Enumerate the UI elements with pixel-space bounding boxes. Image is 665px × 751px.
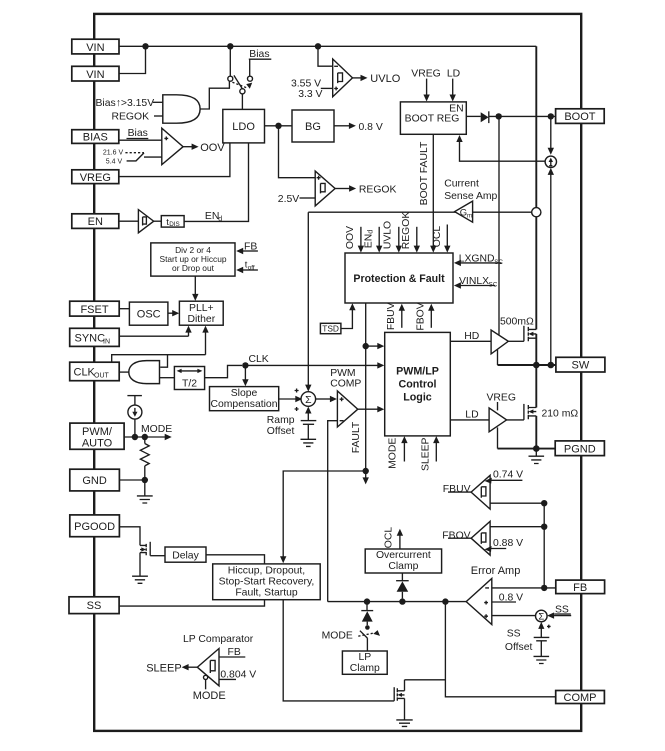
- svg-text:Sense Amp: Sense Amp: [444, 191, 497, 202]
- diode D1 boot: [481, 111, 489, 123]
- svg-text:Slope: Slope: [231, 388, 258, 399]
- wire HD driver return to SW: [497, 350, 499, 365]
- switch S2 MODE LP clamp: [358, 625, 380, 651]
- svg-text:SS: SS: [507, 628, 521, 639]
- svg-text:T/2: T/2: [182, 378, 197, 389]
- wire slope comp to summer: [279, 389, 303, 412]
- delay block Delay: [165, 547, 206, 562]
- label FBUV arrow protection to logic: [386, 302, 405, 330]
- transistor Q2 high-side FET: [508, 326, 536, 342]
- label SS input to summer: [547, 604, 571, 628]
- label 0.8 V BG output: [334, 122, 383, 133]
- svg-text:SS: SS: [87, 600, 102, 612]
- svg-text:OOV: OOV: [200, 142, 225, 154]
- svg-text:OCL: OCL: [383, 527, 394, 549]
- svg-text:or Drop out: or Drop out: [172, 263, 215, 273]
- label OOV arrow into protection: [345, 226, 364, 253]
- wire T/2 output to CLK node: [205, 365, 243, 377]
- svg-text:BIAS: BIAS: [83, 132, 108, 144]
- svg-text:d: d: [218, 216, 222, 223]
- pin VREG: [72, 170, 119, 184]
- wire VIN2 to rail: [119, 46, 146, 73]
- node FB junction error amp: [541, 585, 547, 591]
- svg-text:COMP: COMP: [330, 378, 361, 389]
- svg-text:Ramp: Ramp: [267, 415, 295, 426]
- and-gate U1 bias-ok: [163, 95, 200, 123]
- wire VREG pin to LDO: [119, 143, 230, 177]
- svg-text:MODE: MODE: [322, 631, 353, 642]
- wire VIN power path down to current sense: [535, 46, 537, 207]
- svg-text:AUTO: AUTO: [82, 438, 113, 450]
- svg-text:Clamp: Clamp: [350, 663, 380, 674]
- label FB input to divider: [236, 241, 258, 254]
- svg-text:210 mΩ: 210 mΩ: [542, 408, 579, 419]
- svg-text:SW: SW: [572, 360, 590, 372]
- wire boot supply drop to HD driver: [498, 116, 500, 334]
- capacitor C2 SS offset: [534, 622, 550, 641]
- delay block tDIS: [161, 216, 184, 228]
- svg-text:VREG: VREG: [80, 172, 111, 184]
- state block Hiccup Dropout Startup: [213, 564, 321, 600]
- svg-text:TSD: TSD: [322, 324, 339, 334]
- wire delay to hiccup block: [206, 555, 265, 564]
- node boot junction at diode: [496, 113, 502, 119]
- oscillator OSC: [129, 302, 168, 325]
- regulator LDO: [223, 109, 265, 142]
- label VREG driver supply: [487, 393, 516, 411]
- label REGOK input: [112, 112, 163, 123]
- net FAULT vertical: [351, 303, 366, 471]
- svg-text:FB: FB: [228, 647, 241, 658]
- bandgap BG: [292, 110, 334, 142]
- net FB vertical: [543, 503, 545, 588]
- pin EN: [72, 214, 119, 229]
- svg-text:Hiccup, Dropout,: Hiccup, Dropout,: [228, 565, 305, 576]
- wire OSC to PLL: [168, 310, 179, 316]
- comparator OOV: [162, 128, 183, 164]
- wire SLEEP output: [146, 662, 197, 674]
- wire summer to error amp input: [492, 615, 536, 617]
- label 0.74 V reference: [485, 470, 524, 484]
- diode D2 overcurrent clamp: [396, 573, 409, 598]
- wire VIN rail: [119, 45, 536, 47]
- switch S1 VIN/Bias select: [228, 75, 253, 94]
- svg-text:EN: EN: [205, 211, 219, 222]
- svg-text:LP: LP: [358, 652, 371, 663]
- wire schmitt to tDIS: [154, 220, 162, 222]
- node FB junction FBOV: [541, 524, 547, 530]
- wire high-side source to SW: [535, 334, 537, 365]
- svg-text:m: m: [467, 212, 472, 219]
- thermal block TSD: [320, 323, 341, 333]
- svg-text:Σ: Σ: [538, 612, 544, 623]
- comparator LP: [197, 649, 219, 686]
- svg-text:SLEEP: SLEEP: [420, 437, 431, 471]
- svg-text:0.8 V: 0.8 V: [359, 122, 383, 133]
- svg-text:REGOK: REGOK: [401, 212, 412, 250]
- wire TSD to protection: [341, 303, 356, 328]
- svg-text:Error Amp: Error Amp: [471, 565, 521, 577]
- label 0.8 V reference: [492, 592, 523, 603]
- wire FSET pin to OSC: [119, 308, 129, 310]
- svg-text:3.3 V: 3.3 V: [298, 89, 322, 100]
- net BOOT FAULT wire into protection: [419, 134, 436, 252]
- wire PGOOD pin to Q1 drain: [119, 527, 140, 546]
- ground Q1 source: [132, 553, 148, 584]
- pin SS: [69, 597, 119, 614]
- comparator FBUV: [443, 475, 490, 509]
- clamp block Overcurrent Clamp: [365, 549, 441, 573]
- wire CLK to PWM/LP logic: [245, 362, 384, 368]
- wire comp node to clamp FET: [405, 679, 446, 681]
- wire boot net to BOOT pin: [489, 115, 556, 117]
- node comp junction mid: [399, 598, 405, 604]
- svg-text:500mΩ: 500mΩ: [500, 317, 534, 328]
- wire PWM/AUTO pin MODE output: [124, 424, 172, 440]
- svg-text:Offset: Offset: [505, 642, 533, 653]
- label 0.88 V reference: [484, 538, 523, 552]
- svg-text:FBOV: FBOV: [415, 302, 426, 330]
- svg-text:EN: EN: [88, 216, 103, 228]
- label SLEEP arrow into logic: [420, 436, 439, 471]
- wire HD output: [450, 331, 491, 342]
- gate U2 clock buffer: [129, 361, 160, 384]
- svg-text:FB: FB: [573, 582, 587, 594]
- svg-text:Offset: Offset: [267, 426, 295, 437]
- resistor R1 mode pulldown: [140, 437, 149, 480]
- wire rail drop to switch: [229, 46, 231, 76]
- wire divider to PLL: [192, 276, 198, 301]
- svg-text:LDO: LDO: [232, 121, 255, 133]
- svg-text:OUT: OUT: [94, 373, 110, 380]
- label VINLX sc input: [454, 276, 498, 289]
- node boot junction at pin: [548, 113, 554, 119]
- pin BIAS: [72, 130, 119, 144]
- transistor Q3 low-side FET: [507, 404, 537, 420]
- wire OOV output with label: [183, 142, 225, 154]
- svg-text:FBUV: FBUV: [386, 302, 397, 330]
- block Slope Compensation: [210, 387, 279, 411]
- svg-text:COMP: COMP: [564, 692, 597, 704]
- amplifier Gm current sense: [455, 201, 473, 222]
- wire UVLO output with label: [353, 73, 401, 85]
- pin VIN 2: [72, 66, 119, 81]
- wire SS pin to hiccup block: [119, 600, 264, 606]
- pin PGND: [555, 441, 604, 456]
- wire U2 to T/2: [160, 377, 175, 379]
- svg-text:0.804 V: 0.804 V: [220, 669, 256, 680]
- wire CLKOUT top net to PLL: [112, 326, 209, 368]
- pin PGOOD: [70, 515, 120, 537]
- node CLK junction: [242, 354, 269, 369]
- svg-text:0.8 V: 0.8 V: [499, 592, 523, 603]
- svg-text:BG: BG: [305, 121, 321, 133]
- svg-text:OOV: OOV: [345, 226, 356, 249]
- net ENd wire to LDO: [184, 143, 248, 223]
- wire current sense output line: [308, 211, 531, 213]
- ground mode resistor: [137, 480, 153, 503]
- label OCL output arrow: [383, 527, 403, 549]
- svg-text:PWM/: PWM/: [82, 426, 113, 438]
- svg-text:Compensation: Compensation: [210, 399, 277, 410]
- label MODE arrow into logic: [388, 436, 408, 469]
- node mode junction 1: [132, 434, 138, 440]
- svg-text:SYNC: SYNC: [75, 332, 106, 344]
- pin PWM/AUTO: [70, 423, 124, 450]
- wire FBOV input from FB: [490, 526, 544, 528]
- label FB input LP comparator: [219, 647, 245, 658]
- svg-text:CLK: CLK: [249, 354, 269, 365]
- svg-text:Σ: Σ: [305, 395, 312, 406]
- svg-text:OSC: OSC: [137, 308, 161, 320]
- node SW junction 1: [533, 362, 540, 369]
- node PGND junction: [533, 445, 540, 452]
- divider block Div 2 or 4: [151, 243, 235, 276]
- svg-text:PGND: PGND: [564, 443, 596, 455]
- node VIN rail junction switch: [227, 43, 233, 49]
- wire SW node rail: [498, 364, 556, 366]
- wire current sense signal down to summer: [305, 212, 311, 391]
- block PLL+Dither: [179, 301, 223, 325]
- svg-text:Dither: Dither: [187, 314, 215, 325]
- svg-text:FBOV: FBOV: [442, 530, 470, 541]
- wire PWM comparator output to logic: [358, 406, 385, 412]
- wire LD output: [450, 410, 489, 421]
- ground comp clamp: [396, 720, 412, 727]
- node comp junction left: [364, 598, 370, 604]
- svg-text:REGOK: REGOK: [112, 112, 150, 123]
- protection block Protection & Fault: [345, 253, 453, 303]
- wire LD driver return to PGND: [497, 427, 499, 448]
- svg-text:SC: SC: [489, 281, 498, 288]
- svg-text:LP Comparator: LP Comparator: [183, 634, 254, 645]
- pin SW: [556, 357, 605, 372]
- wire SYNCIN pin to PLL: [119, 326, 192, 337]
- node LDO output junction: [275, 123, 281, 129]
- svg-text:PWM/LP: PWM/LP: [396, 366, 439, 378]
- wire BIAS pin to OOV comparator: [119, 128, 162, 140]
- wire PGND rail: [498, 448, 556, 450]
- svg-text:VREG: VREG: [411, 69, 440, 80]
- wire SW to low-side drain: [535, 365, 537, 408]
- svg-text:LD: LD: [447, 69, 460, 80]
- pin COMP: [556, 691, 605, 705]
- svg-text:ENd: ENd: [363, 230, 374, 248]
- comparator UVLO: [333, 59, 353, 97]
- label FBOV arrow protection to logic: [415, 302, 434, 330]
- svg-text:Current: Current: [444, 178, 479, 189]
- wire summer to PWM comparator: [316, 396, 337, 402]
- svg-text:VINLX: VINLX: [459, 276, 489, 287]
- label 2.5V reference: [278, 194, 315, 205]
- svg-text:0.74 V: 0.74 V: [493, 470, 523, 481]
- svg-text:UVLO: UVLO: [383, 221, 394, 249]
- wire U1 output to switch throw: [200, 81, 229, 109]
- label LD input to boot reg: [447, 69, 460, 102]
- label OCL arrow into protection: [432, 225, 450, 253]
- IC boundary frame: [94, 14, 581, 731]
- svg-text:5.4 V: 5.4 V: [106, 159, 123, 166]
- wire low-side source to PGND: [535, 416, 537, 449]
- svg-text:BOOT FAULT: BOOT FAULT: [419, 141, 430, 205]
- pin FSET: [70, 301, 120, 316]
- svg-text:LD: LD: [465, 410, 478, 421]
- wire EN pin to schmitt buffer: [119, 220, 138, 222]
- wire FBUV input from FB: [490, 502, 544, 504]
- wire comp node down to COMP pin: [445, 602, 555, 697]
- pin FB: [556, 580, 605, 594]
- comparator PWM COMP: [337, 391, 357, 427]
- svg-text:GND: GND: [82, 475, 107, 487]
- ground SS offset: [534, 641, 550, 664]
- driver HD high-side: [491, 330, 508, 354]
- svg-text:BOOT REG: BOOT REG: [405, 113, 460, 124]
- svg-text:Fault, Startup: Fault, Startup: [235, 587, 298, 598]
- label Bias>3.15V input: [96, 98, 163, 109]
- svg-text:HD: HD: [464, 331, 479, 342]
- svg-text:FSET: FSET: [80, 304, 108, 316]
- label PWM COMP: [330, 368, 361, 389]
- wire boot reg EN feedback: [456, 135, 545, 161]
- node VIN rail junction UVLO: [315, 43, 321, 49]
- label LXGND sc input: [454, 253, 503, 266]
- node Bias label at switch: [249, 49, 271, 76]
- svg-text:3.55 V: 3.55 V: [291, 78, 321, 89]
- node VIN rail junction 1: [142, 43, 148, 49]
- diode D3 LP clamp: [361, 602, 373, 626]
- svg-text:UVLO: UVLO: [370, 73, 400, 85]
- label VREG input to boot reg: [411, 69, 440, 102]
- summer S2 SS offset: [536, 610, 548, 622]
- node mode junction 2: [142, 434, 148, 440]
- svg-text:DIS: DIS: [169, 221, 180, 228]
- svg-text:FBUV: FBUV: [443, 484, 471, 495]
- driver LD low-side: [489, 408, 507, 432]
- current source I1 mode bias: [127, 396, 141, 437]
- ground PGND: [529, 449, 545, 464]
- svg-text:Overcurrent: Overcurrent: [376, 550, 431, 561]
- label toff input to divider: [236, 260, 258, 274]
- logic block PWM/LP Control Logic: [385, 332, 451, 436]
- svg-text:MODE: MODE: [141, 424, 172, 435]
- svg-text:SLEEP: SLEEP: [146, 662, 181, 674]
- svg-text:Control: Control: [399, 379, 437, 391]
- label UVLO arrow into protection: [383, 221, 402, 253]
- pin GND: [70, 469, 120, 491]
- label Ramp Offset: [267, 415, 295, 437]
- wire MODE input LP comparator: [193, 680, 226, 703]
- svg-text:Protection & Fault: Protection & Fault: [353, 273, 445, 285]
- svg-text:VREG: VREG: [487, 393, 516, 404]
- current source I2 boot: [545, 116, 556, 365]
- comparator REGOK: [315, 171, 335, 206]
- node gnd junction: [142, 477, 148, 483]
- node fault junction lower: [363, 468, 369, 485]
- wire switch pole to LDO top: [241, 94, 243, 110]
- label 3.55 V / 3.3 V thresholds: [291, 78, 333, 100]
- node fault junction to logic: [363, 343, 385, 349]
- svg-text:Stop-Start Recovery,: Stop-Start Recovery,: [219, 576, 315, 587]
- block T/2: [174, 367, 204, 390]
- svg-text:LXGND: LXGND: [459, 253, 495, 264]
- node SW junction 2: [548, 362, 555, 369]
- pin VIN 1: [72, 39, 119, 54]
- comparator FBOV: [442, 521, 490, 555]
- label 21.6 V / 5.4 V ramp reference: [103, 149, 162, 165]
- svg-text:Bias: Bias: [128, 128, 148, 139]
- svg-text:2.5V: 2.5V: [278, 194, 299, 205]
- wire REGOK output with label: [335, 185, 396, 196]
- wire CLKOUT pin to U2: [119, 371, 129, 373]
- clamp block LP Clamp: [342, 651, 387, 674]
- svg-text:PLL+: PLL+: [189, 303, 214, 314]
- transistor Q4 comp clamp FET: [394, 680, 404, 720]
- node FB junction FBUV: [541, 500, 547, 506]
- wire LDO output to REGOK comparator: [279, 126, 316, 178]
- wire LDO to BG: [265, 125, 293, 127]
- wire power path to high-side FET drain: [535, 217, 537, 330]
- svg-text:BOOT: BOOT: [564, 111, 595, 123]
- svg-text:Clamp: Clamp: [388, 561, 418, 572]
- wire CLK to slope compensation: [242, 365, 248, 386]
- wire hiccup block to clamp FET gate: [283, 600, 394, 701]
- net COMP error amp output: [328, 421, 467, 602]
- pin CLKOUT: [70, 362, 120, 381]
- svg-text:CLK: CLK: [74, 367, 96, 379]
- svg-text:Bias↑>3.15V: Bias↑>3.15V: [96, 98, 155, 109]
- label REGOK arrow into protection: [401, 212, 420, 253]
- summer S1 PWM ramp: [301, 392, 316, 407]
- svg-text:VIN: VIN: [86, 42, 104, 54]
- op-amp U3 error amplifier: [466, 579, 492, 625]
- label ENd arrow into protection: [363, 227, 382, 253]
- transistor Q1 PGOOD pulldown: [140, 542, 165, 556]
- label SS Offset: [505, 628, 533, 653]
- ground ramp offset: [301, 424, 317, 446]
- capacitor C1 ramp offset: [301, 407, 317, 425]
- svg-text:Delay: Delay: [172, 550, 199, 561]
- wire fault to hiccup block: [280, 471, 366, 563]
- wire boot reg output: [466, 115, 480, 117]
- node comp junction right: [442, 598, 448, 604]
- pin BOOT: [556, 109, 605, 124]
- wire rail drop to UVLO input: [318, 46, 333, 66]
- svg-text:FAULT: FAULT: [351, 421, 362, 453]
- svg-text:IN: IN: [103, 338, 110, 345]
- label Current Sense Amp: [444, 178, 497, 202]
- svg-text:SC: SC: [494, 259, 503, 266]
- svg-text:0.88 V: 0.88 V: [493, 538, 523, 549]
- wire GND pin to resistor: [117, 479, 145, 481]
- svg-text:21.6 V: 21.6 V: [103, 149, 124, 156]
- regulator BOOT REG: [400, 102, 466, 134]
- buffer EN schmitt: [138, 210, 153, 233]
- svg-text:PGOOD: PGOOD: [74, 521, 115, 533]
- svg-text:Logic: Logic: [403, 392, 432, 404]
- svg-text:REGOK: REGOK: [359, 185, 397, 196]
- pin SYNCIN: [70, 328, 120, 346]
- svg-text:MODE: MODE: [193, 690, 226, 702]
- svg-text:VIN: VIN: [86, 69, 104, 81]
- wire FB pin to error amp: [492, 587, 556, 589]
- svg-text:MODE: MODE: [388, 438, 399, 469]
- sense tap on power path: [532, 208, 541, 217]
- svg-text:Bias: Bias: [249, 49, 269, 60]
- label 0.804 V reference: [219, 669, 256, 680]
